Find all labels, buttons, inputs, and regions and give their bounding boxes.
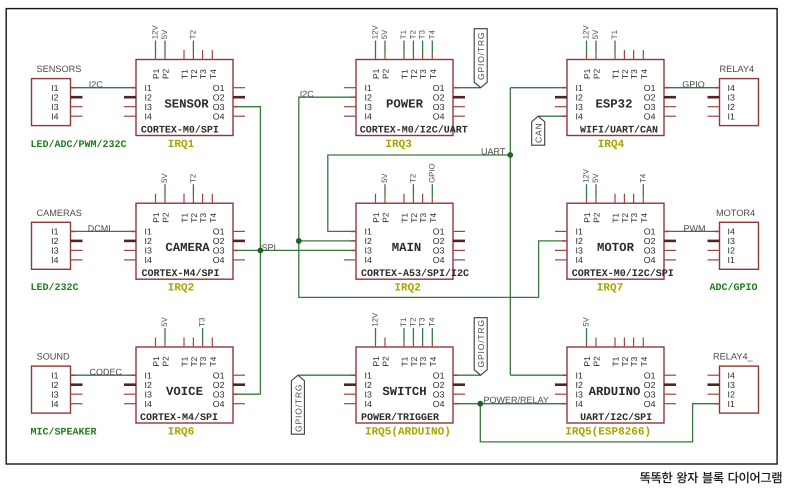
svg-text:I4: I4 — [365, 399, 372, 409]
svg-text:CAN: CAN — [534, 122, 544, 143]
svg-text:T3: T3 — [629, 213, 639, 223]
wire DCMI from CAMERAS I1 to CAMERA I1 — [76, 230, 132, 232]
svg-text:P2: P2 — [381, 68, 391, 79]
svg-text:12V: 12V — [371, 25, 380, 40]
svg-text:I2: I2 — [576, 236, 583, 246]
svg-text:PWM: PWM — [684, 223, 706, 233]
block U7 VOICE (VOICE) — [124, 316, 245, 423]
svg-text:T3: T3 — [418, 318, 427, 327]
svg-text:O4: O4 — [433, 111, 445, 121]
junction SPI junction — [258, 248, 264, 254]
block U6 MOTOR (MOTOR) — [555, 168, 676, 280]
svg-text:I3: I3 — [365, 102, 372, 112]
svg-text:IRQ1: IRQ1 — [168, 139, 195, 151]
svg-text:I3: I3 — [51, 102, 58, 112]
svg-text:I3: I3 — [365, 389, 372, 399]
svg-text:P2: P2 — [161, 68, 171, 79]
svg-text:SENSOR: SENSOR — [164, 98, 209, 112]
svg-text:IRQ5(ESP8266): IRQ5(ESP8266) — [565, 426, 651, 438]
svg-text:MAIN: MAIN — [392, 241, 422, 255]
svg-text:I2C: I2C — [89, 80, 104, 90]
svg-text:O4: O4 — [644, 111, 656, 121]
block U2 POWER (POWER) — [344, 25, 468, 137]
svg-text:I4: I4 — [576, 255, 583, 265]
svg-text:T3: T3 — [418, 356, 428, 366]
svg-text:T4: T4 — [208, 213, 218, 223]
svg-text:I3: I3 — [51, 389, 58, 399]
svg-text:CORTEX-M4/SPI: CORTEX-M4/SPI — [142, 268, 220, 280]
svg-text:12V: 12V — [151, 25, 160, 40]
svg-text:P2: P2 — [381, 356, 391, 367]
connector J4 RELAY4 (RELAY4) — [708, 79, 759, 126]
svg-text:GPIO/TRG: GPIO/TRG — [476, 319, 486, 367]
svg-text:T4: T4 — [638, 173, 647, 183]
svg-text:P1: P1 — [371, 356, 381, 367]
svg-text:CODEC: CODEC — [90, 367, 123, 377]
wire CAN flag to ESP32 I4 — [538, 115, 562, 117]
svg-text:ARDUINO: ARDUINO — [589, 385, 641, 399]
svg-text:P2: P2 — [592, 212, 602, 223]
svg-text:T3: T3 — [418, 213, 428, 223]
caption 똑똑한 왕자 블록 다이어그램 — [640, 472, 781, 484]
svg-text:I2: I2 — [365, 236, 372, 246]
svg-text:T2: T2 — [188, 174, 197, 183]
svg-text:I2: I2 — [51, 236, 58, 246]
svg-text:T4: T4 — [208, 69, 218, 79]
svg-text:5V: 5V — [380, 29, 389, 39]
svg-text:P1: P1 — [582, 356, 592, 367]
svg-text:IRQ7: IRQ7 — [597, 283, 623, 295]
block U4 CAMERA (CAMERA) — [124, 173, 245, 280]
wire GPIO/TRG flag to SWITCH I1 — [298, 374, 351, 376]
svg-text:I4: I4 — [728, 83, 735, 93]
flag CAN at ESP32 I4 — [532, 116, 545, 145]
junction UART junction — [507, 152, 513, 158]
wire SWITCH O1 to GPIO/TRG flag — [458, 374, 481, 376]
svg-text:5V: 5V — [160, 29, 169, 39]
svg-text:I4: I4 — [51, 399, 58, 409]
svg-text:O1: O1 — [433, 227, 445, 237]
svg-text:GPIO/TRG: GPIO/TRG — [476, 32, 486, 80]
svg-text:CORTEX-M0/I2C/UART: CORTEX-M0/I2C/UART — [360, 124, 468, 136]
svg-text:DCMI: DCMI — [88, 223, 111, 233]
svg-text:O4: O4 — [213, 255, 225, 265]
svg-text:P1: P1 — [151, 212, 161, 223]
svg-text:I4: I4 — [728, 370, 735, 380]
block U5 MAIN (MAIN) — [344, 163, 469, 280]
svg-text:WIFI/UART/CAN: WIFI/UART/CAN — [580, 124, 658, 136]
svg-text:P2: P2 — [161, 212, 171, 223]
svg-text:I4: I4 — [145, 111, 152, 121]
svg-text:P2: P2 — [592, 356, 602, 367]
svg-text:ADC/GPIO: ADC/GPIO — [710, 282, 758, 294]
svg-text:IRQ2: IRQ2 — [394, 283, 420, 295]
svg-text:I2: I2 — [145, 92, 152, 102]
svg-text:12V: 12V — [582, 168, 591, 183]
svg-text:I4: I4 — [365, 255, 372, 265]
svg-text:O2: O2 — [433, 380, 445, 390]
svg-text:MIC/SPEAKER: MIC/SPEAKER — [31, 426, 97, 438]
svg-text:I4: I4 — [728, 227, 735, 237]
svg-text:T3: T3 — [418, 30, 427, 39]
svg-text:T4: T4 — [427, 29, 436, 39]
wire UART to ESP32 I1 — [510, 87, 562, 89]
svg-text:12V: 12V — [371, 312, 380, 327]
flag GPIO/TRG at SWITCH I1 — [291, 375, 304, 434]
svg-text:UART: UART — [481, 147, 506, 157]
svg-text:I2: I2 — [728, 389, 735, 399]
svg-text:POWER: POWER — [386, 98, 424, 112]
svg-text:I3: I3 — [145, 389, 152, 399]
svg-text:IRQ3: IRQ3 — [385, 139, 412, 151]
svg-text:CORTEX-M4/SPI: CORTEX-M4/SPI — [140, 412, 218, 424]
svg-text:I1: I1 — [145, 227, 152, 237]
wire I2C from SENSORS I1 to SENSOR I1 — [76, 87, 132, 89]
svg-text:O1: O1 — [644, 83, 656, 93]
svg-text:O3: O3 — [644, 246, 656, 256]
svg-text:O1: O1 — [644, 227, 656, 237]
svg-text:O3: O3 — [433, 246, 445, 256]
svg-text:I1: I1 — [576, 370, 583, 380]
svg-text:I2: I2 — [576, 92, 583, 102]
svg-text:I1: I1 — [365, 227, 372, 237]
svg-text:SPI: SPI — [262, 242, 277, 252]
svg-text:ESP32: ESP32 — [596, 98, 633, 112]
svg-text:T2: T2 — [408, 30, 417, 39]
svg-text:T3: T3 — [198, 318, 207, 327]
svg-text:CAMERA: CAMERA — [165, 241, 210, 255]
svg-text:P2: P2 — [161, 356, 171, 367]
svg-text:I1: I1 — [576, 227, 583, 237]
svg-text:I4: I4 — [145, 255, 152, 265]
svg-text:O2: O2 — [213, 236, 225, 246]
svg-text:5V: 5V — [582, 316, 591, 326]
svg-text:O2: O2 — [433, 92, 445, 102]
svg-text:O4: O4 — [433, 399, 445, 409]
svg-text:T3: T3 — [198, 356, 208, 366]
flag GPIO/TRG at SWITCH O1 — [474, 318, 487, 376]
svg-text:O4: O4 — [644, 255, 656, 265]
svg-text:SOUND: SOUND — [37, 352, 71, 362]
svg-text:O1: O1 — [433, 83, 445, 93]
svg-text:O2: O2 — [213, 92, 225, 102]
svg-text:MOTOR4: MOTOR4 — [716, 208, 755, 218]
svg-text:LED/ADC/PWM/232C: LED/ADC/PWM/232C — [31, 139, 127, 151]
svg-text:GPIO: GPIO — [427, 163, 436, 183]
svg-text:O3: O3 — [433, 389, 445, 399]
svg-text:I1: I1 — [51, 83, 58, 93]
svg-text:T4: T4 — [428, 69, 438, 79]
wire I2C bus POWER I2 to MOTOR I2 — [299, 97, 562, 297]
wire PWM MOTOR O1 to MOTOR4 I4 — [669, 230, 715, 232]
wire POWER O1 to GPIO/TRG flag — [458, 87, 481, 89]
junction I2C junction — [296, 238, 302, 244]
svg-text:O3: O3 — [433, 102, 445, 112]
svg-text:O4: O4 — [213, 111, 225, 121]
svg-text:T3: T3 — [418, 69, 428, 79]
svg-text:T3: T3 — [198, 213, 208, 223]
svg-text:P1: P1 — [371, 68, 381, 79]
svg-text:P1: P1 — [582, 68, 592, 79]
svg-text:I4: I4 — [51, 255, 58, 265]
svg-text:I2: I2 — [728, 102, 735, 112]
svg-text:T1: T1 — [399, 30, 408, 39]
wire GPIO ESP32 O1 to RELAY4 I4 — [669, 87, 715, 89]
svg-text:I4: I4 — [576, 399, 583, 409]
svg-text:UART/I2C/SPI: UART/I2C/SPI — [580, 412, 652, 424]
svg-text:T3: T3 — [198, 69, 208, 79]
svg-text:5V: 5V — [160, 316, 169, 326]
junction POWER/RELAY junction — [477, 401, 483, 407]
svg-text:I2: I2 — [576, 380, 583, 390]
svg-text:CORTEX-A53/SPI/I2C: CORTEX-A53/SPI/I2C — [361, 268, 469, 280]
svg-text:RELAY4: RELAY4 — [720, 64, 755, 74]
svg-text:T4: T4 — [208, 356, 218, 366]
wire CODEC from SOUND I1 to VOICE I1 — [76, 374, 132, 376]
svg-text:I2: I2 — [51, 380, 58, 390]
svg-text:T4: T4 — [639, 356, 649, 366]
svg-text:I3: I3 — [145, 102, 152, 112]
svg-text:T4: T4 — [428, 356, 438, 366]
svg-text:POWER/TRIGGER: POWER/TRIGGER — [361, 412, 439, 424]
svg-text:O2: O2 — [213, 380, 225, 390]
svg-text:I1: I1 — [728, 255, 735, 265]
svg-text:I4: I4 — [51, 111, 58, 121]
svg-text:IRQ4: IRQ4 — [598, 139, 625, 151]
svg-text:O3: O3 — [644, 102, 656, 112]
svg-text:T4: T4 — [639, 213, 649, 223]
svg-text:T1: T1 — [610, 30, 619, 39]
svg-text:T1: T1 — [399, 318, 408, 327]
svg-text:O1: O1 — [213, 370, 225, 380]
svg-text:I4: I4 — [576, 111, 583, 121]
svg-text:T3: T3 — [629, 69, 639, 79]
svg-text:RELAY4_: RELAY4_ — [713, 352, 754, 362]
connector J6 RELAY4_ (RELAY4_) — [708, 366, 759, 413]
svg-text:O1: O1 — [644, 370, 656, 380]
svg-text:GPIO: GPIO — [682, 79, 705, 89]
svg-text:I1: I1 — [145, 370, 152, 380]
svg-text:T2: T2 — [188, 30, 197, 39]
wire SPI vertical from SENSOR O3 down to VOICE O3 — [238, 107, 260, 395]
svg-text:SWITCH: SWITCH — [382, 385, 426, 399]
svg-text:MOTOR: MOTOR — [597, 241, 635, 255]
svg-text:I4: I4 — [145, 399, 152, 409]
block U1 SENSOR (SENSOR) — [124, 25, 245, 137]
svg-text:O1: O1 — [213, 83, 225, 93]
svg-text:O2: O2 — [644, 236, 656, 246]
svg-text:SENSORS: SENSORS — [37, 64, 82, 74]
svg-text:T4: T4 — [427, 317, 436, 327]
svg-text:O2: O2 — [433, 236, 445, 246]
svg-text:12V: 12V — [582, 25, 591, 40]
svg-text:I1: I1 — [728, 399, 735, 409]
svg-text:I2: I2 — [145, 236, 152, 246]
svg-text:5V: 5V — [591, 29, 600, 39]
svg-text:I1: I1 — [145, 83, 152, 93]
svg-text:I2: I2 — [365, 92, 372, 102]
svg-text:I4: I4 — [365, 111, 372, 121]
svg-text:IRQ5(ARDUINO): IRQ5(ARDUINO) — [365, 426, 451, 438]
svg-text:I3: I3 — [728, 380, 735, 390]
block U3 ESP32 (ESP32) — [555, 25, 676, 137]
connector J3 SOUND (SOUND) — [32, 366, 83, 413]
svg-text:I3: I3 — [576, 102, 583, 112]
svg-text:I2C: I2C — [300, 89, 315, 99]
svg-text:I3: I3 — [576, 389, 583, 399]
svg-text:5V: 5V — [380, 173, 389, 183]
connector J2 CAMERAS (CAMERAS) — [32, 222, 83, 269]
svg-text:I1: I1 — [51, 227, 58, 237]
svg-text:CORTEX-M0/I2C/SPI: CORTEX-M0/I2C/SPI — [572, 268, 674, 280]
svg-text:O3: O3 — [213, 389, 225, 399]
svg-text:T2: T2 — [408, 318, 417, 327]
svg-text:CORTEX-M0/SPI: CORTEX-M0/SPI — [141, 124, 219, 136]
svg-text:I3: I3 — [728, 92, 735, 102]
svg-text:5V: 5V — [160, 173, 169, 183]
svg-text:P1: P1 — [582, 212, 592, 223]
svg-text:T4: T4 — [639, 69, 649, 79]
svg-text:POWER/RELAY: POWER/RELAY — [484, 395, 549, 405]
svg-text:O3: O3 — [644, 389, 656, 399]
svg-text:O2: O2 — [644, 380, 656, 390]
wire I2C branch to MAIN I2 — [299, 240, 351, 242]
connector J5 MOTOR4 (MOTOR4) — [708, 222, 759, 269]
wire SPI stub VOICE O3 — [238, 393, 260, 395]
svg-text:P1: P1 — [371, 212, 381, 223]
svg-text:O4: O4 — [213, 399, 225, 409]
svg-text:LED/232C: LED/232C — [31, 282, 79, 294]
svg-text:T2: T2 — [408, 174, 417, 183]
svg-text:T3: T3 — [629, 356, 639, 366]
wire UART from MAIN I1 — [328, 155, 511, 231]
svg-text:P2: P2 — [381, 212, 391, 223]
svg-text:IRQ2: IRQ2 — [168, 283, 194, 295]
svg-text:I1: I1 — [365, 83, 372, 93]
svg-text:I3: I3 — [145, 246, 152, 256]
block U8 SWITCH (SWITCH) — [344, 312, 465, 424]
svg-text:O1: O1 — [433, 370, 445, 380]
svg-text:O3: O3 — [213, 246, 225, 256]
svg-text:I1: I1 — [51, 370, 58, 380]
svg-text:O4: O4 — [644, 399, 656, 409]
svg-text:I2: I2 — [728, 246, 735, 256]
svg-text:I2: I2 — [51, 92, 58, 102]
wire POWER/RELAY SWITCH O4 to ARDUINO I4 — [458, 403, 562, 405]
svg-text:T4: T4 — [428, 213, 438, 223]
svg-text:O3: O3 — [213, 102, 225, 112]
svg-text:I3: I3 — [576, 246, 583, 256]
svg-text:O4: O4 — [433, 255, 445, 265]
svg-text:O1: O1 — [213, 227, 225, 237]
svg-text:I2: I2 — [365, 380, 372, 390]
svg-text:I3: I3 — [728, 236, 735, 246]
svg-text:P1: P1 — [151, 68, 161, 79]
svg-text:IRQ6: IRQ6 — [168, 426, 194, 438]
svg-text:I3: I3 — [51, 246, 58, 256]
wire UART vertical ESP32 I1 to ARDUINO I1 — [509, 88, 511, 376]
svg-text:O2: O2 — [644, 92, 656, 102]
flag GPIO/TRG at POWER O1 — [474, 29, 487, 88]
svg-text:VOICE: VOICE — [166, 385, 203, 399]
svg-text:I1: I1 — [728, 111, 735, 121]
svg-text:P2: P2 — [592, 68, 602, 79]
svg-text:I1: I1 — [576, 83, 583, 93]
svg-text:P1: P1 — [151, 356, 161, 367]
wire POWER/RELAY detour to RELAY4_ I1 — [480, 404, 714, 442]
svg-text:CAMERAS: CAMERAS — [37, 208, 82, 218]
svg-text:I2: I2 — [145, 380, 152, 390]
svg-text:I1: I1 — [365, 370, 372, 380]
block U9 ARDUINO (ARDUINO) — [555, 316, 676, 423]
svg-text:GPIO/TRG: GPIO/TRG — [293, 384, 303, 432]
connector J1 SENSORS (SENSORS) — [32, 79, 83, 126]
svg-text:5V: 5V — [591, 173, 600, 183]
wire SPI horizontal CAMERA O3 to MAIN I3 — [238, 249, 351, 251]
svg-text:I3: I3 — [365, 246, 372, 256]
wire UART to ARDUINO I1 — [510, 374, 562, 376]
